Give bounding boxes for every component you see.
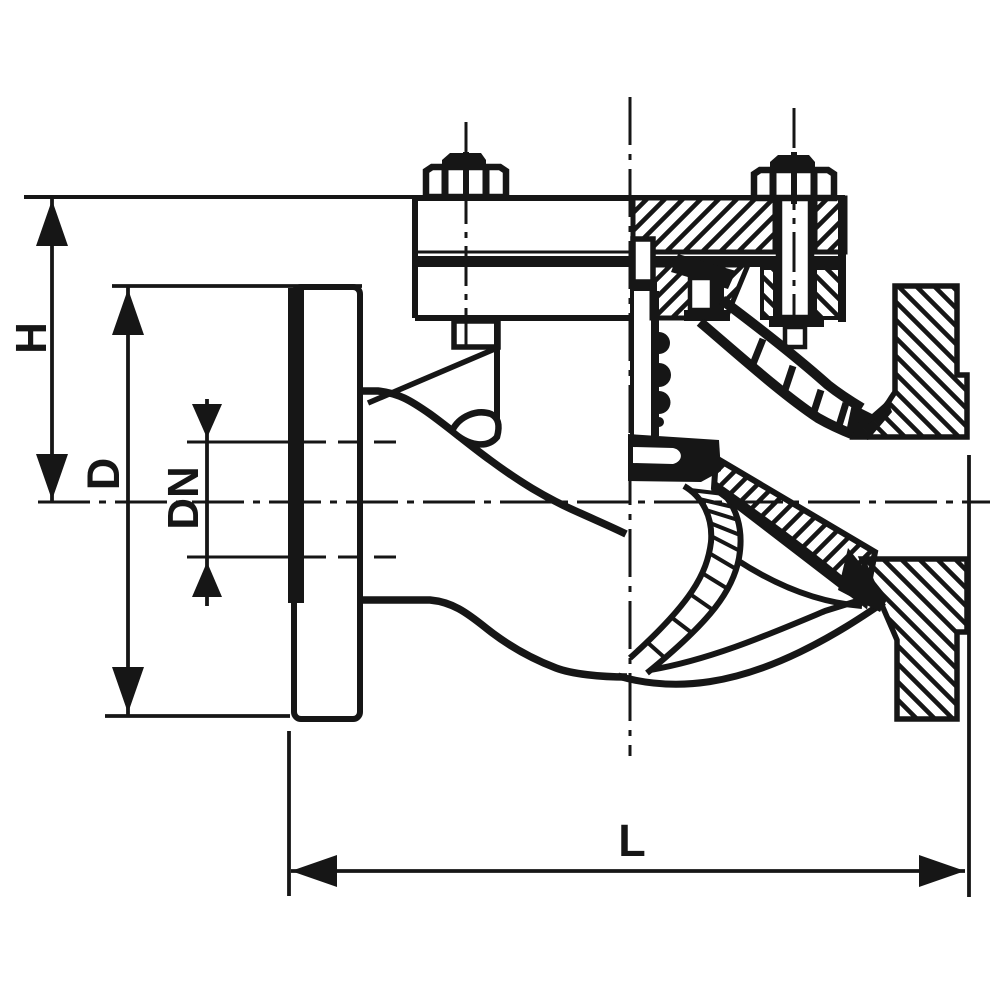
right bolt nut facets	[770, 170, 777, 198]
bowl ladder ticks	[647, 490, 740, 658]
cover gasket top line	[415, 251, 845, 254]
hinge pocket white box	[690, 278, 712, 310]
hinge pocket side bar	[712, 276, 724, 310]
tilted seat lower thick edge	[714, 486, 865, 602]
pocket boundary line to foot	[737, 560, 862, 606]
stem column right bar	[651, 291, 659, 436]
right flange top section hatched	[854, 286, 967, 437]
body flange ring hatch right of bolt	[815, 268, 841, 318]
wire vertical centerline	[629, 97, 632, 756]
body flange ring hatch left of bolt	[762, 268, 775, 318]
cover gasket thick band	[415, 256, 845, 267]
pipe wall inner line D2	[700, 322, 854, 435]
cover right lug hatched	[815, 198, 845, 252]
spring coil bumps	[659, 332, 670, 354]
cover right side wall bar	[838, 198, 846, 322]
pipe wall outer line D1	[722, 300, 862, 408]
body bottom wall outer line	[618, 602, 884, 684]
right bolt stem solid	[791, 152, 797, 204]
node L arrow left	[291, 855, 337, 887]
body bottom wall inner line	[650, 597, 870, 670]
wall-flange junction blob	[846, 400, 892, 440]
node H arrow down	[36, 454, 68, 500]
left bolt dome cap	[442, 153, 486, 168]
right bolt lower stud	[785, 327, 805, 347]
disc white lens	[633, 447, 681, 464]
svg-text:DN: DN	[159, 466, 208, 530]
pipe wall rungs	[751, 339, 846, 429]
wire DN extension bottom	[187, 556, 292, 559]
wire D extension bottom	[105, 714, 290, 718]
disc black mass	[628, 434, 721, 482]
wire DN bore line top dashes	[302, 441, 396, 444]
cover left half outline	[415, 198, 633, 318]
cover right half hatched top plate	[633, 198, 775, 252]
node D arrow up	[112, 289, 144, 335]
gusset rib diagonal	[368, 348, 497, 403]
stem bushing white box	[633, 239, 653, 282]
node L dimension line	[291, 869, 965, 873]
svg-text:D: D	[78, 458, 129, 491]
left bolt nut hex	[426, 167, 506, 197]
right bolt dome cap	[770, 155, 815, 171]
node DN dimension vertical line	[205, 399, 209, 606]
node DN arrow top pointing down	[192, 404, 222, 438]
node D arrow down	[112, 667, 144, 713]
node D dimension vertical line	[126, 286, 130, 716]
tilted seat ring hatched band	[714, 458, 875, 604]
stem column left edge	[630, 291, 634, 436]
left bolt centerline	[465, 122, 468, 345]
svg-text:H: H	[7, 322, 56, 354]
left bolt stem solid	[463, 152, 469, 200]
seat lip thick wedge	[671, 254, 736, 289]
wire H extension line top	[24, 195, 845, 199]
right bolt washer band	[769, 318, 824, 327]
node H arrow up	[36, 200, 68, 246]
body upper contour left view	[360, 391, 626, 534]
body lower contour left view	[360, 600, 627, 677]
bonnet inner boss hatched	[652, 265, 748, 318]
bowl ladder band inner edge	[630, 486, 711, 658]
bonnet neck edge	[494, 321, 500, 438]
wire horizontal centerline axis	[38, 501, 990, 504]
bowl ladder band outer edge	[647, 488, 741, 673]
left flange face thick band	[288, 288, 304, 603]
node H dimension vertical line	[50, 197, 54, 502]
left bolt nut facets	[442, 167, 449, 197]
foot knot fill	[838, 548, 888, 612]
node DN arrow bottom pointing up	[192, 562, 222, 597]
right bolt nut hex	[754, 170, 834, 198]
right bolt centerline	[793, 108, 796, 352]
cover bottom edge left	[415, 315, 633, 321]
right flange bottom section hatched	[862, 559, 967, 719]
wire D extension top	[112, 284, 362, 288]
boss dome on body	[452, 412, 499, 444]
wire L extension left	[287, 731, 291, 896]
svg-text:L: L	[618, 815, 646, 866]
wire DN extension top	[187, 441, 292, 444]
right bolt shank	[779, 170, 811, 318]
wire DN bore line bottom dashes	[302, 556, 396, 559]
bonnet neck collar	[454, 321, 498, 347]
node L arrow right	[919, 855, 965, 887]
hinge pocket bottom band	[684, 310, 730, 321]
stem bushing bottom band	[630, 281, 657, 291]
wire L extension right	[967, 455, 971, 897]
left flange outline	[294, 287, 360, 719]
